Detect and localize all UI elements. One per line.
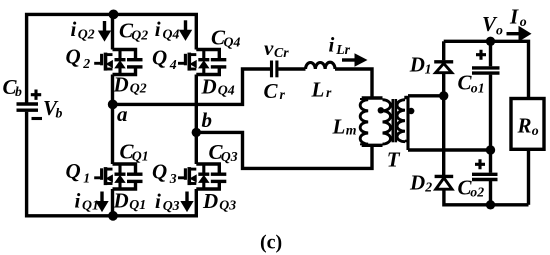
svg-text:m: m bbox=[346, 123, 357, 138]
svg-text:D: D bbox=[202, 189, 218, 213]
svg-text:Q: Q bbox=[66, 45, 81, 69]
svg-text:4: 4 bbox=[169, 57, 177, 72]
svg-text:i: i bbox=[71, 17, 77, 41]
svg-text:Lr: Lr bbox=[335, 42, 350, 57]
svg-text:L: L bbox=[332, 114, 346, 138]
svg-text:I: I bbox=[509, 5, 519, 29]
svg-text:Q2: Q2 bbox=[130, 80, 147, 95]
svg-text:o: o bbox=[532, 123, 539, 138]
svg-text:D: D bbox=[409, 170, 425, 194]
svg-text:Q4: Q4 bbox=[224, 34, 241, 49]
svg-text:Q: Q bbox=[152, 160, 167, 184]
svg-text:D: D bbox=[113, 189, 129, 213]
svg-text:Q1: Q1 bbox=[82, 198, 99, 213]
svg-text:i: i bbox=[75, 189, 81, 213]
svg-text:a: a bbox=[117, 102, 128, 126]
svg-text:L: L bbox=[311, 78, 325, 102]
svg-text:Cr: Cr bbox=[274, 45, 289, 60]
svg-text:Q1: Q1 bbox=[132, 149, 149, 164]
svg-text:b: b bbox=[56, 105, 63, 120]
svg-text:o: o bbox=[520, 14, 527, 29]
svg-text:Q4: Q4 bbox=[218, 83, 235, 98]
svg-text:Q2: Q2 bbox=[78, 26, 95, 41]
svg-text:Q4: Q4 bbox=[163, 26, 180, 41]
svg-text:D: D bbox=[409, 53, 425, 77]
svg-text:Q3: Q3 bbox=[163, 198, 180, 213]
svg-text:Q1: Q1 bbox=[129, 197, 146, 212]
svg-text:b: b bbox=[15, 84, 22, 99]
svg-text:D: D bbox=[201, 75, 217, 99]
svg-text:i: i bbox=[155, 17, 161, 41]
svg-text:r: r bbox=[326, 85, 332, 100]
svg-text:i: i bbox=[329, 32, 335, 56]
svg-text:i: i bbox=[155, 189, 161, 213]
svg-text:T: T bbox=[387, 148, 401, 172]
svg-text:C: C bbox=[264, 79, 279, 103]
svg-text:2: 2 bbox=[424, 180, 432, 195]
svg-text:o: o bbox=[496, 23, 503, 38]
svg-text:Q2: Q2 bbox=[131, 27, 148, 42]
svg-text:Q3: Q3 bbox=[219, 198, 236, 213]
svg-text:r: r bbox=[280, 87, 286, 102]
svg-text:Q: Q bbox=[152, 46, 167, 70]
svg-text:1: 1 bbox=[425, 62, 432, 77]
svg-text:2: 2 bbox=[82, 56, 90, 71]
svg-text:3: 3 bbox=[169, 171, 177, 186]
svg-text:1: 1 bbox=[83, 170, 90, 185]
svg-text:b: b bbox=[202, 108, 213, 132]
svg-text:v: v bbox=[264, 36, 274, 60]
svg-text:(c): (c) bbox=[260, 232, 282, 254]
svg-text:o1: o1 bbox=[471, 80, 485, 95]
svg-text:Q3: Q3 bbox=[221, 149, 238, 164]
svg-text:D: D bbox=[113, 72, 129, 96]
svg-text:R: R bbox=[517, 114, 532, 138]
svg-text:Q: Q bbox=[66, 159, 81, 183]
svg-text:o2: o2 bbox=[470, 185, 484, 200]
